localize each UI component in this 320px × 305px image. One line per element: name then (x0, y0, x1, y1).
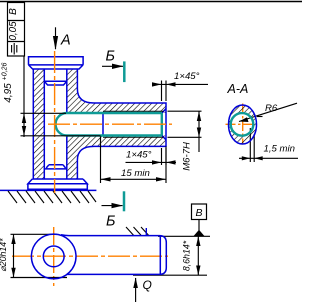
svg-text:А: А (60, 33, 71, 49)
svg-text:15 min: 15 min (121, 168, 150, 179)
svg-text:R6: R6 (265, 103, 278, 114)
svg-text:В: В (195, 207, 202, 219)
svg-text:+0,26: +0,26 (2, 63, 9, 81)
svg-text:Q: Q (143, 278, 152, 292)
svg-text:А-А: А-А (227, 82, 249, 96)
svg-text:0,05: 0,05 (8, 21, 19, 41)
svg-text:В: В (8, 8, 19, 15)
svg-text:1,5 min: 1,5 min (264, 144, 295, 155)
svg-text:1×45°: 1×45° (126, 150, 152, 161)
svg-text:8,6h14*: 8,6h14* (182, 240, 192, 271)
svg-text:4,95: 4,95 (3, 83, 14, 103)
svg-text:М6-7Н: М6-7Н (182, 142, 193, 171)
svg-text:1×45°: 1×45° (174, 71, 200, 82)
svg-text:Б: Б (106, 49, 115, 65)
svg-text:⌀20h14*: ⌀20h14* (0, 238, 8, 272)
svg-text:Б: Б (106, 214, 115, 230)
